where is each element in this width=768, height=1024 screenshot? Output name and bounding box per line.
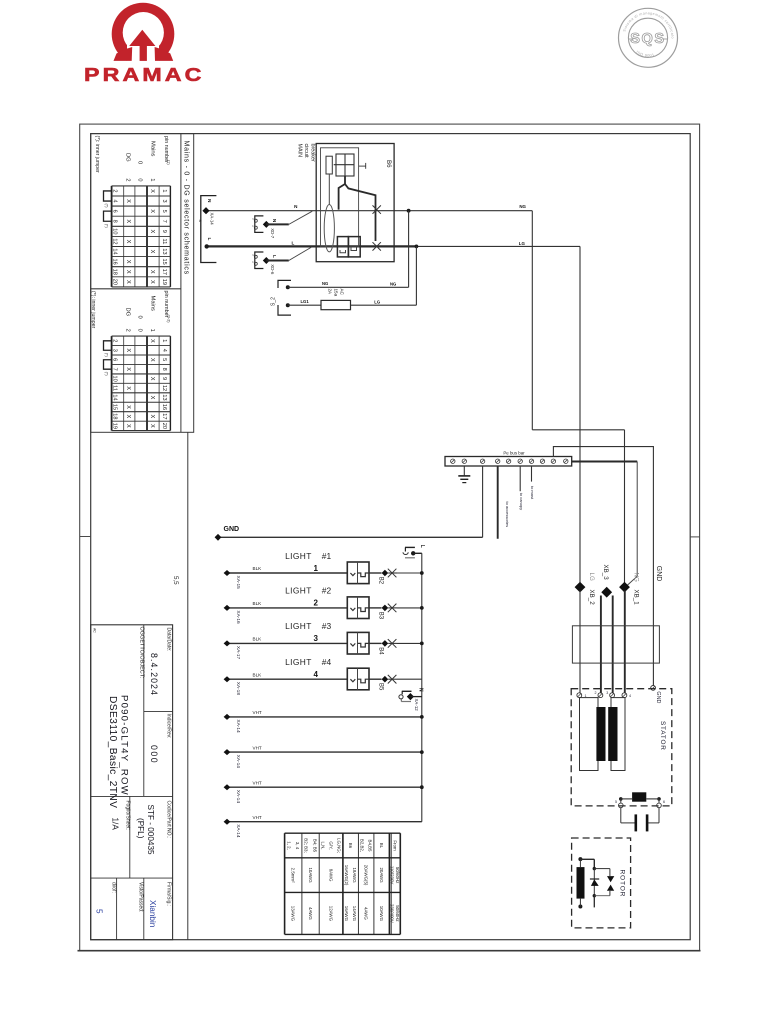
svg-text:18: 18 [112,269,118,275]
svg-text:(3-2): (3-2) [167,315,171,324]
svg-text:XA-14: XA-14 [235,790,241,804]
svg-text:3: 3 [112,349,118,352]
svg-text:to accessories: to accessories [505,502,510,528]
svg-text:XA-12: XA-12 [414,699,419,712]
svg-text:G/Y,: G/Y, [328,841,333,849]
svg-text:B4; B5: B4; B5 [312,839,317,853]
svg-text:to canopy: to canopy [519,493,524,510]
svg-text:Codice/Part NO.:: Codice/Part NO.: [166,801,172,839]
svg-text:B6: B6 [385,160,392,168]
svg-text:2: 2 [124,329,130,332]
svg-text:(1): (1) [167,160,171,165]
svg-text:50/60Hz: 50/60Hz [395,867,400,883]
svg-text:0: 0 [136,178,142,181]
svg-text:XA-17: XA-17 [235,646,241,660]
svg-text:XA-14: XA-14 [235,719,241,733]
svg-text:X: X [125,219,131,223]
svg-text:STF - 000435: STF - 000435 [146,805,155,856]
svg-text:X: X [125,348,131,352]
svg-text:17: 17 [161,413,167,419]
svg-text:17: 17 [161,269,167,275]
svg-text:50/60Hz: 50/60Hz [395,905,400,921]
svg-text:3: 3 [251,218,255,220]
svg-text:#3: #3 [322,621,332,631]
svg-text:BLK: BLK [253,601,263,606]
svg-text:8AWG: 8AWG [328,869,333,882]
svg-text:STATOR: STATOR [659,721,666,751]
svg-text:X: X [125,280,131,284]
svg-text:XB_2: XB_2 [588,590,595,606]
svg-text:XB_1: XB_1 [633,590,640,606]
svg-text:1: 1 [314,564,319,573]
svg-text:Data/Date:: Data/Date: [166,628,172,652]
svg-text:BLK: BLK [253,637,263,642]
svg-text:14AWG: 14AWG [352,906,357,922]
svg-text:AC: AC [93,628,97,633]
svg-text:LG: LG [374,299,380,304]
svg-text:Foglio/Sheet:: Foglio/Sheet: [125,801,131,830]
svg-text:3: 3 [606,691,608,695]
svg-text:2A: 2A [328,289,333,296]
svg-text:L: L [419,545,425,548]
svg-text:18: 18 [112,413,118,419]
svg-text:AC: AC [340,289,345,296]
svg-text:L: L [292,241,295,246]
svg-text:15a: 15a [334,289,339,297]
svg-text:N: N [206,199,212,203]
svg-text:8.4.2024: 8.4.2024 [149,653,159,696]
svg-text:4AWG: 4AWG [364,907,369,920]
svg-text:X: X [125,199,131,203]
svg-text:4: 4 [161,349,167,352]
svg-text:(PFL): (PFL) [136,818,145,839]
svg-text:15: 15 [112,404,118,410]
svg-text:X: X [125,260,131,264]
svg-text:7: 7 [161,220,167,223]
svg-text:230/400V: 230/400V [390,904,395,923]
svg-text:GND: GND [655,691,661,703]
svg-text:(*): inner jumper: (*): inner jumper [94,136,100,173]
svg-text:MAIN: MAIN [297,144,303,158]
svg-text:4: 4 [314,670,319,679]
svg-text:B6: B6 [348,843,353,849]
svg-text:GND: GND [655,566,662,582]
svg-text:LG: LG [588,573,595,581]
svg-text:S_2: S_2 [271,297,277,306]
svg-text:8: 8 [161,368,167,371]
svg-text:2: 2 [112,339,118,342]
svg-text:6: 6 [112,358,118,361]
svg-text:1: 1 [161,339,167,342]
svg-text:SQS: SQS [630,31,665,47]
svg-text:16: 16 [112,259,118,265]
svg-text:3: 3 [251,254,255,256]
svg-text:2: 2 [124,178,130,181]
svg-text:#4: #4 [322,657,332,667]
svg-text:VHT: VHT [253,780,262,785]
svg-text:13: 13 [161,394,167,400]
svg-text:19: 19 [161,279,167,285]
svg-text:XD-7: XD-7 [270,228,275,239]
svg-text:B5: B5 [377,683,383,691]
svg-text:1: 1 [149,329,155,332]
svg-text:XA-16: XA-16 [235,610,241,624]
svg-text:N: N [417,688,423,692]
svg-text:VHT: VHT [253,745,262,750]
svg-text:2.5mm²: 2.5mm² [291,868,296,883]
svg-text:X: X [149,280,155,284]
svg-text:110/230V: 110/230V [390,866,395,885]
svg-text:X: X [125,405,131,409]
svg-text:NG: NG [633,573,640,582]
svg-text:X: X [125,270,131,274]
svg-text:20AWG(5): 20AWG(5) [364,865,369,886]
svg-text:20AWG: 20AWG [379,867,384,883]
svg-text:LIGHT: LIGHT [285,657,312,667]
svg-text:B3: B3 [377,612,383,620]
svg-text:X: X [149,270,155,274]
svg-text:12: 12 [112,238,118,244]
svg-text:0: 0 [136,316,142,319]
svg-text:LIGHT: LIGHT [285,621,312,631]
svg-text:10AWG: 10AWG [308,867,313,883]
svg-text:6: 6 [112,210,118,213]
svg-text:000: 000 [149,745,159,764]
svg-text:1, 2,: 1, 2, [286,841,291,850]
svg-text:X: X [149,209,155,213]
svg-text:X: X [125,240,131,244]
svg-text:8: 8 [112,220,118,223]
svg-text:15: 15 [161,259,167,265]
svg-text:2: 2 [112,189,118,192]
svg-text:5: 5 [615,800,617,804]
svg-text:X: X [125,367,131,371]
svg-text:X: X [149,250,155,254]
svg-text:X: X [149,358,155,362]
svg-text:X: X [149,424,155,428]
svg-text:LG1: LG1 [301,299,310,304]
svg-text:11: 11 [161,239,167,245]
svg-text:0: 0 [136,329,142,332]
svg-text:5: 5 [161,210,167,213]
svg-text:DSE3110_Basic_2TNV: DSE3110_Basic_2TNV [107,696,118,808]
svg-text:Firma/Sig.:: Firma/Sig.: [166,882,172,906]
svg-text:16AWG: 16AWG [344,906,349,922]
svg-text:19: 19 [112,423,118,429]
svg-text:10: 10 [112,228,118,234]
svg-text:Mains - 0 - DG selector schema: Mains - 0 - DG selector schematics [183,141,190,275]
svg-text:3: 3 [161,199,167,202]
svg-text:B2,B2,: B2,B2, [360,839,365,852]
svg-text:2: 2 [251,261,255,263]
svg-text:X: X [149,396,155,400]
svg-text:12: 12 [161,385,167,391]
svg-text:XA-14: XA-14 [235,755,241,769]
svg-text:GND: GND [224,526,240,533]
svg-text:X: X [149,339,155,343]
svg-text:NG: NG [390,281,396,286]
svg-text:20: 20 [161,423,167,429]
svg-text:L: L [271,255,277,258]
svg-text:B4,B5: B4,B5 [367,840,372,853]
svg-text:VHT: VHT [253,815,262,820]
svg-text:1: 1 [149,178,155,181]
svg-text:0: 0 [136,161,142,164]
svg-text:13AWG: 13AWG [291,906,296,922]
svg-text:4: 4 [629,694,631,698]
svg-text:NG: NG [322,281,328,286]
svg-text:#1: #1 [322,551,332,561]
svg-text:3, 4: 3, 4 [295,842,300,850]
svg-text:B2; B3;: B2; B3; [304,838,309,852]
svg-text:5: 5 [161,358,167,361]
svg-text:X: X [149,229,155,233]
svg-text:2: 2 [314,599,319,608]
svg-text:L: L [206,238,212,241]
svg-text:2: 2 [595,691,597,695]
svg-text:DG: DG [124,308,130,317]
svg-text:13: 13 [161,248,167,254]
svg-text:4AWG: 4AWG [308,907,313,920]
svg-text:LG,NG;: LG,NG; [336,838,341,853]
svg-text:9: 9 [161,377,167,380]
svg-text:BLK: BLK [253,672,263,677]
svg-text:XB_3: XB_3 [602,565,609,581]
svg-text:circuit: circuit [303,144,309,159]
svg-text:XA-18: XA-18 [235,682,241,696]
svg-text:20: 20 [112,279,118,285]
svg-text:B4: B4 [377,647,383,655]
svg-text:L,N,: L,N, [321,841,326,849]
svg-text:2: 2 [251,225,255,227]
svg-text:PRAMAC: PRAMAC [84,64,205,85]
svg-text:From: From [392,840,397,851]
svg-text:di/of:: di/of: [111,882,117,893]
svg-text:1/A: 1/A [111,818,120,831]
svg-text:18AWG: 18AWG [352,867,357,883]
svg-text:Pe bus bar: Pe bus bar [503,451,525,456]
svg-text:XA-14: XA-14 [210,213,215,226]
svg-text:Visto/Passed:: Visto/Passed: [138,882,144,912]
svg-text:14: 14 [112,248,118,254]
svg-text:LIGHT: LIGHT [285,551,312,561]
svg-text:10AWG: 10AWG [379,906,384,922]
svg-text:B2: B2 [377,577,383,585]
svg-text:P090-GLT4Y_ROW: P090-GLT4Y_ROW [119,695,130,796]
svg-text:NG: NG [519,204,526,209]
svg-text:DG: DG [124,153,130,162]
svg-text:3: 3 [314,634,319,643]
svg-text:9: 9 [161,230,167,233]
svg-text:Mains: Mains [150,296,156,312]
svg-text:to mast: to mast [530,486,535,500]
svg-text:Xianbin: Xianbin [148,900,157,928]
svg-text:X: X [149,377,155,381]
svg-text:X: X [125,424,131,428]
svg-text:XA-15: XA-15 [235,576,241,590]
svg-text:OGGETTO/OBJECT:: OGGETTO/OBJECT: [139,627,145,679]
svg-text:ROTOR: ROTOR [618,870,625,898]
svg-text:X: X [125,386,131,390]
svg-text:6: 6 [663,800,665,804]
svg-text:LIGHT: LIGHT [285,586,312,596]
svg-text:5,5: 5,5 [172,576,179,585]
svg-text:#2: #2 [322,586,332,596]
svg-text:Indice/Rev:: Indice/Rev: [166,714,172,739]
svg-text:BL: BL [379,843,384,849]
svg-text:7: 7 [112,368,118,371]
svg-text:16: 16 [161,404,167,410]
svg-text:Mains: Mains [150,141,156,157]
svg-text:X: X [125,415,131,419]
svg-text:10: 10 [112,376,118,382]
svg-text:LG: LG [519,241,526,246]
svg-text:XA-14: XA-14 [235,824,241,838]
svg-text:12AWG: 12AWG [328,906,333,922]
svg-text:1: 1 [161,189,167,192]
svg-text:5: 5 [95,909,104,914]
svg-text:VHT: VHT [253,710,262,715]
svg-text:N: N [271,219,277,223]
svg-text:14: 14 [112,394,118,400]
svg-text:XD-6: XD-6 [270,264,275,275]
svg-text:X: X [149,415,155,419]
svg-text:(*): inner jumper: (*): inner jumper [90,291,96,328]
svg-text:BLK: BLK [253,566,263,571]
svg-text:11: 11 [112,385,118,391]
svg-text:X: X [149,189,155,193]
svg-text:breaker: breaker [309,144,315,162]
svg-text:16AWG(2): 16AWG(2) [344,865,349,886]
svg-text:4: 4 [112,199,118,202]
